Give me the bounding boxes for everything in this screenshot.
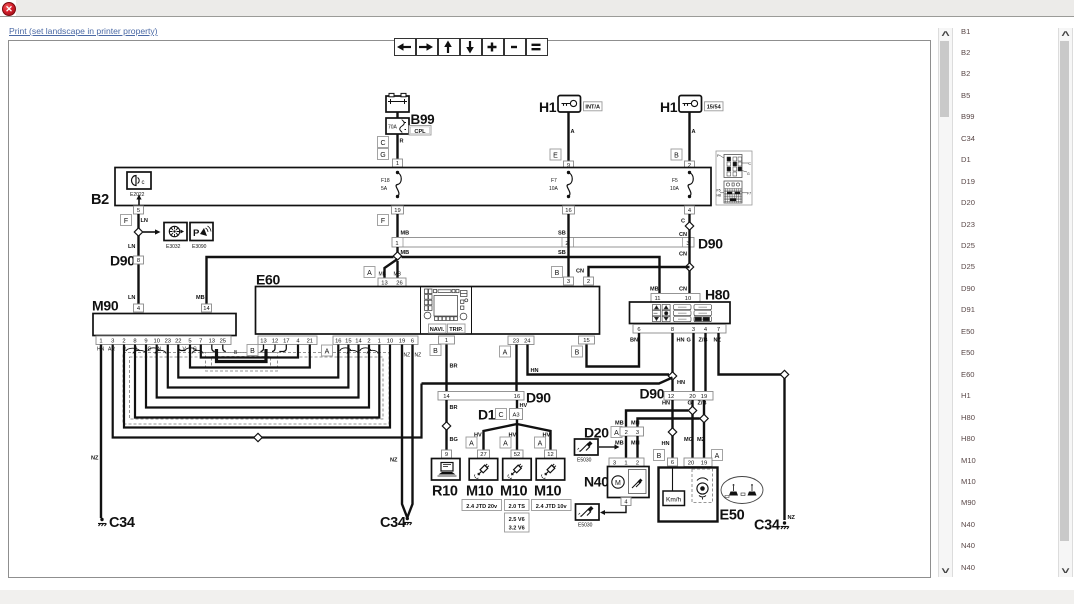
svg-text:M10: M10 — [500, 484, 528, 500]
svg-text:CN: CN — [679, 232, 687, 238]
variant box 2.4 JTD 10v — [532, 500, 572, 511]
code box C — [378, 137, 389, 148]
arrow to E3032 — [143, 231, 156, 233]
svg-text:8: 8 — [671, 327, 674, 333]
wire HV splits to three injectors — [484, 420, 551, 451]
svg-text:D20: D20 — [584, 425, 609, 441]
svg-text:C: C — [380, 140, 385, 147]
connector strip D90 row — [392, 238, 694, 248]
svg-text:F5: F5 — [672, 178, 678, 184]
wire bottom bus NZ — [113, 345, 422, 438]
code box A MB — [364, 267, 375, 278]
variant box 2.4 JTD 20v — [462, 500, 502, 511]
svg-text:G: G — [193, 347, 197, 353]
svg-text:HN: HN — [662, 401, 670, 407]
wire MB branch to D20 pin 2 — [626, 411, 688, 428]
junction diamond LN — [134, 228, 142, 236]
svg-text:HN: HN — [677, 338, 685, 344]
pin strip E60 bottom right — [333, 336, 418, 345]
svg-text:G: G — [747, 172, 750, 176]
arrow into E2022 — [138, 197, 140, 205]
junction diamond ZB branch — [700, 414, 708, 422]
junction diamond CN upper — [685, 222, 693, 230]
svg-text:19: 19 — [701, 394, 707, 400]
svg-text:3: 3 — [692, 327, 695, 333]
steering controls H80 — [630, 302, 731, 324]
svg-text:MG: MG — [684, 437, 693, 443]
junction diamond BR — [442, 422, 450, 430]
fuse F7 10A — [567, 171, 570, 174]
svg-text:16: 16 — [335, 338, 341, 344]
svg-text:N40: N40 — [584, 474, 609, 490]
svg-text:F: F — [124, 218, 128, 225]
code box A E60 23 24 — [500, 346, 511, 357]
wire G H80 pin 3 — [692, 333, 694, 391]
svg-text:E60: E60 — [256, 272, 281, 288]
svg-text:MB: MB — [394, 272, 402, 278]
svg-text:A: A — [503, 440, 508, 447]
junction diamond CN lower — [685, 263, 693, 271]
wire HN E60 pin 23 to D90 16 — [515, 345, 517, 392]
wire from bottom bus to HN diamond — [422, 378, 673, 384]
injection icon E5030 upper — [575, 439, 599, 455]
svg-text:2: 2 — [625, 430, 628, 436]
wire harness level 3 — [146, 345, 369, 408]
hook M90 pin 13 — [212, 345, 215, 352]
svg-text:5A: 5A — [381, 186, 388, 192]
shield dashed small inner — [212, 357, 271, 368]
svg-text:HN: HN — [531, 368, 539, 374]
svg-text:MB: MB — [401, 231, 410, 237]
svg-text:25: 25 — [220, 338, 226, 344]
svg-text:B2: B2 — [91, 192, 109, 208]
svg-text:13: 13 — [381, 280, 387, 286]
svg-text:1: 1 — [396, 161, 399, 167]
wire harness level 8 — [201, 345, 298, 358]
code box B E50 — [654, 450, 665, 461]
svg-text:F7: F7 — [747, 192, 751, 196]
svg-text:14: 14 — [203, 306, 210, 312]
pin strip N40 top — [609, 458, 644, 467]
code box G — [378, 149, 389, 160]
svg-text:SB: SB — [558, 250, 566, 256]
wire harness level 4 — [157, 345, 359, 398]
svg-text:A: A — [571, 129, 575, 135]
svg-text:B99: B99 — [411, 112, 435, 127]
svg-text:BR: BR — [450, 405, 458, 411]
pin strip H80 bottom — [633, 325, 726, 334]
wire harness level 7 — [190, 345, 310, 368]
hook E60 pin 17 — [279, 345, 286, 352]
svg-text:NZ: NZ — [788, 515, 796, 521]
pin 4 N40 bottom — [621, 498, 631, 506]
battery B99 — [386, 93, 409, 112]
fusebox B2 — [115, 168, 711, 206]
connector location inset — [716, 151, 752, 205]
svg-text:B: B — [575, 349, 580, 356]
twisted pair arcs left — [126, 348, 140, 351]
idle actuator N40 — [608, 467, 650, 498]
svg-text:A: A — [469, 440, 474, 447]
svg-text:B: B — [555, 270, 560, 277]
wire ZB H80 pin 4 — [704, 333, 706, 391]
svg-text:52: 52 — [514, 452, 520, 458]
pin strip 23 24 E60 bottom — [508, 336, 534, 345]
svg-text:A: A — [614, 430, 619, 437]
svg-text:13: 13 — [209, 338, 215, 344]
svg-text:6: 6 — [671, 460, 674, 466]
pin strip D20 — [620, 427, 644, 436]
svg-text:C34: C34 — [109, 515, 135, 531]
svg-text:F18: F18 — [381, 178, 390, 184]
svg-text:2.4 JTD 10v: 2.4 JTD 10v — [536, 504, 568, 510]
svg-text:TRIP.: TRIP. — [449, 327, 463, 333]
pin 9 B2 top — [564, 161, 574, 169]
pin 8 connector D90 — [134, 256, 144, 264]
shield dashed inner — [130, 357, 384, 419]
svg-text:H1: H1 — [539, 99, 557, 115]
svg-text:D90: D90 — [110, 253, 135, 269]
svg-text:A: A — [503, 349, 508, 356]
pin 2 E60 top — [584, 277, 594, 285]
junction diamond HN lower — [668, 428, 676, 436]
wire CN branch to E60 pin 2 — [589, 267, 690, 277]
wire MB bus — [396, 247, 398, 255]
svg-text:3: 3 — [567, 279, 570, 285]
code box A E50 — [712, 450, 723, 461]
hook E60 pin 13 — [261, 345, 264, 352]
code box A M10 1 — [466, 437, 477, 448]
svg-text:E5030: E5030 — [577, 458, 592, 464]
svg-text:27: 27 — [480, 452, 486, 458]
svg-text:NZ: NZ — [91, 456, 99, 462]
svg-text:1: 1 — [99, 338, 102, 344]
speed sensor dashed — [692, 469, 713, 503]
svg-text:NZ: NZ — [390, 458, 398, 464]
wire BN H80 pin 6 — [587, 333, 640, 367]
sensor icon E3090 — [190, 223, 213, 241]
svg-text:M90: M90 — [92, 298, 119, 314]
svg-text:A: A — [367, 270, 372, 277]
injector M10 3 — [536, 459, 565, 481]
heated washer icon E3032 — [164, 223, 187, 241]
svg-text:LN: LN — [128, 244, 135, 250]
svg-text:R: R — [400, 139, 404, 145]
connector A3 — [510, 409, 523, 420]
pin strip D90 mid — [438, 392, 524, 401]
svg-text:D90: D90 — [640, 386, 665, 402]
svg-text:2.0 TS: 2.0 TS — [508, 504, 525, 510]
svg-text:1: 1 — [624, 460, 627, 466]
pin strip D90 right — [664, 392, 713, 401]
svg-text:F: F — [717, 154, 719, 158]
code box A M10 2 — [500, 437, 511, 448]
wire shielded pair thick — [217, 349, 267, 362]
svg-text:HN: HN — [677, 380, 685, 386]
svg-text:21: 21 — [307, 338, 313, 344]
svg-text:BR: BR — [450, 364, 458, 370]
svg-text:5: 5 — [137, 208, 140, 214]
svg-text:LN: LN — [128, 295, 135, 301]
code box B E60 15 — [572, 346, 583, 357]
wire harness level 2 — [135, 345, 379, 418]
svg-text:15/54: 15/54 — [707, 105, 722, 111]
code box B — [671, 149, 682, 160]
wire LN from B2 pin 5 — [137, 214, 139, 304]
svg-text:26: 26 — [396, 280, 402, 286]
svg-text:E50: E50 — [720, 508, 745, 524]
svg-text:BG: BG — [450, 437, 458, 443]
svg-text:3: 3 — [111, 338, 114, 344]
svg-text:MB: MB — [379, 272, 387, 278]
horn icon E2022 — [127, 172, 151, 189]
svg-text:MB: MB — [650, 287, 659, 293]
hook E60 pin 12 — [272, 345, 275, 352]
svg-text:14: 14 — [355, 338, 362, 344]
code box E — [550, 149, 561, 160]
svg-text:NZ: NZ — [415, 353, 422, 359]
pin 14 M90 top — [202, 304, 212, 312]
svg-text:19: 19 — [701, 460, 707, 466]
injection icon E5030 lower — [576, 504, 600, 520]
svg-text:6: 6 — [411, 338, 414, 344]
svg-text:19: 19 — [394, 208, 400, 214]
svg-text:A: A — [692, 129, 696, 135]
svg-text:Km/h: Km/h — [666, 497, 682, 504]
svg-text:1: 1 — [395, 241, 398, 247]
pin 16 B2 bottom — [563, 206, 575, 214]
label TRIP — [448, 324, 466, 333]
injector M10 1 — [469, 459, 498, 481]
code box A D20 — [611, 427, 622, 438]
wire MB to H80 pin 11 — [402, 257, 660, 293]
wire HV from D90 pin 16 — [516, 400, 518, 409]
svg-text:B: B — [234, 350, 238, 356]
pin 6 E50 top — [668, 458, 678, 466]
ground C34 mid — [406, 517, 409, 520]
kmh box — [663, 491, 685, 506]
svg-text:15: 15 — [345, 338, 351, 344]
svg-text:C: C — [681, 219, 685, 225]
wire MB fork to E60 pin 26 — [396, 261, 398, 278]
svg-text:NAVI.: NAVI. — [430, 327, 445, 333]
svg-text:10: 10 — [685, 296, 691, 302]
wire MB to M90 — [207, 257, 394, 304]
pin 1 E60 bottom — [439, 336, 455, 344]
svg-text:MB: MB — [196, 295, 205, 301]
code box A harness — [322, 345, 333, 356]
arrow E5030 to wire — [599, 446, 615, 448]
hook M90 pin 25 — [223, 345, 226, 352]
pin 5 B2 bottom — [134, 206, 144, 214]
wire inside to kmh — [672, 467, 674, 492]
wire battery to fuse — [396, 112, 398, 118]
svg-text:C34: C34 — [380, 515, 406, 531]
svg-text:E3032: E3032 — [166, 244, 181, 250]
svg-text:E2022: E2022 — [130, 192, 145, 198]
svg-text:E5030: E5030 — [578, 523, 593, 529]
code box B CN — [552, 267, 563, 278]
svg-text:MB: MB — [615, 421, 624, 427]
wire harness level 1 — [124, 345, 390, 428]
variant box 2.5 V6 3.2 V6 — [505, 513, 530, 532]
svg-text:2: 2 — [587, 279, 590, 285]
pin 12 — [545, 450, 557, 458]
junction diamond NZ right — [780, 370, 788, 378]
svg-text:LN: LN — [141, 218, 148, 224]
svg-text:B: B — [433, 348, 438, 355]
pin 15 E60 bottom — [579, 336, 595, 344]
pin 4 M90 top — [134, 304, 144, 312]
svg-text:10: 10 — [153, 338, 159, 344]
code box B E60 right — [430, 345, 441, 356]
svg-text:CN: CN — [679, 252, 687, 258]
svg-text:23: 23 — [513, 338, 519, 344]
svg-text:1: 1 — [378, 338, 381, 344]
svg-text:20: 20 — [689, 394, 695, 400]
svg-text:G: G — [688, 401, 692, 407]
svg-text:MZ: MZ — [697, 437, 706, 443]
svg-text:10A: 10A — [549, 186, 559, 192]
wire BR to D90 pin 14 — [445, 345, 447, 392]
svg-text:19: 19 — [399, 338, 405, 344]
svg-text:5: 5 — [188, 338, 191, 344]
pin 19 B2 bottom — [392, 206, 404, 214]
wire ZB to E50 pin 19 — [703, 400, 705, 458]
wire harness level 5 — [168, 345, 349, 388]
svg-text:INT/A: INT/A — [585, 105, 600, 111]
svg-text:13: 13 — [260, 338, 266, 344]
svg-text:NZ: NZ — [404, 353, 411, 359]
svg-text:3: 3 — [613, 460, 616, 466]
code box B harness — [247, 345, 258, 356]
svg-text:B: B — [657, 453, 662, 460]
svg-text:9: 9 — [144, 338, 147, 344]
navigation unit E60 — [256, 287, 600, 335]
pin 3 E60 top — [564, 277, 574, 285]
svg-text:1: 1 — [445, 338, 448, 344]
svg-text:3: 3 — [636, 430, 639, 436]
svg-text:12: 12 — [272, 338, 278, 344]
svg-text:7: 7 — [199, 338, 202, 344]
code box C D1 — [496, 409, 507, 420]
junction diamond MB — [393, 252, 401, 260]
svg-text:2: 2 — [367, 338, 370, 344]
pin strip M90 bottom — [96, 336, 231, 345]
svg-text:F7: F7 — [551, 178, 557, 184]
svg-text:H80: H80 — [705, 287, 730, 303]
svg-text:CN: CN — [679, 287, 687, 293]
svg-text:70A: 70A — [388, 125, 398, 131]
svg-text:MN: MN — [631, 421, 640, 427]
code box A M10 3 — [535, 437, 546, 448]
wire harness level 6 — [178, 345, 338, 378]
wire HN from E60 pin 24 — [528, 345, 670, 375]
svg-text:M: M — [615, 480, 621, 487]
svg-text:16: 16 — [514, 394, 520, 400]
wire NZ H80 pin 7 to C34 — [719, 333, 785, 520]
svg-text:8: 8 — [133, 338, 136, 344]
location ellipse E50 — [721, 477, 763, 504]
radio unit M90 — [93, 314, 236, 336]
wire A from H1 — [567, 112, 569, 161]
svg-text:A: A — [538, 440, 543, 447]
svg-text:G: G — [380, 152, 385, 159]
label NAVI — [429, 324, 447, 333]
pin 2 B2 top — [685, 161, 695, 169]
svg-text:20: 20 — [688, 460, 694, 466]
svg-text:A: A — [715, 453, 720, 460]
wire R battery feed — [396, 134, 398, 159]
svg-text:c: c — [142, 180, 145, 186]
label CPL — [409, 126, 431, 136]
pin 1 B2 top — [393, 159, 403, 167]
pin 27 — [478, 450, 490, 458]
wire MN branch to D20 pin 3 — [638, 419, 700, 428]
svg-text:CPL: CPL — [414, 129, 426, 135]
svg-text:12: 12 — [668, 394, 674, 400]
svg-text:CN: CN — [576, 269, 584, 275]
fuse F5 10A — [688, 171, 691, 174]
wire NZ E60 pin 19 to ground — [402, 345, 407, 518]
wire MB fork to E60 pin 13 — [385, 259, 398, 278]
svg-text:P: P — [193, 228, 200, 239]
pin strip 13 26 E60 top — [378, 278, 406, 287]
svg-text:M10: M10 — [466, 484, 494, 500]
svg-text:12: 12 — [547, 452, 553, 458]
shield dashed small outer — [206, 353, 278, 372]
wire NZ E60 pin 6 to ground — [408, 345, 413, 518]
svg-text:E3090: E3090 — [192, 244, 207, 250]
svg-text:HN: HN — [662, 441, 670, 447]
svg-text:F5: F5 — [717, 189, 721, 193]
svg-text:C34: C34 — [754, 518, 780, 534]
fuse F18 5A — [396, 171, 399, 174]
junction diamond bottom bus — [254, 433, 262, 441]
wire BR to R10 — [445, 400, 447, 450]
ground C34 left — [100, 518, 103, 521]
wire N40 pin 4 to E5030 — [604, 506, 626, 513]
instrument cluster E50 — [659, 468, 718, 522]
pin 52 — [511, 450, 523, 458]
svg-text:A3: A3 — [512, 413, 519, 419]
nav faceplate icon — [424, 289, 468, 320]
svg-text:C: C — [498, 412, 503, 419]
svg-text:SB: SB — [558, 231, 566, 237]
wire MB from B2 pin 19 — [396, 214, 398, 237]
svg-text:H1: H1 — [660, 99, 678, 115]
svg-text:6: 6 — [637, 327, 640, 333]
svg-text:24: 24 — [524, 338, 531, 344]
svg-text:G: G — [687, 338, 691, 344]
code box F left — [121, 215, 132, 226]
svg-text:17: 17 — [283, 338, 289, 344]
svg-text:BN: BN — [630, 338, 638, 344]
shield dashed outer — [123, 353, 389, 425]
svg-text:B: B — [250, 348, 255, 355]
svg-text:R10: R10 — [432, 484, 458, 500]
wire G to E50 pin 20 — [691, 400, 693, 458]
svg-text:B: B — [674, 152, 679, 159]
pin strip E60 bottom left — [258, 336, 317, 345]
diagnostic socket R10 — [432, 459, 461, 481]
pin strip 20 19 E50 top — [684, 458, 712, 467]
fuse 70A B99 — [386, 118, 409, 134]
svg-text:22: 22 — [175, 338, 181, 344]
svg-text:10A: 10A — [670, 186, 680, 192]
svg-text:2.4 JTD 20v: 2.4 JTD 20v — [466, 504, 498, 510]
svg-text:H8: H8 — [717, 194, 722, 198]
